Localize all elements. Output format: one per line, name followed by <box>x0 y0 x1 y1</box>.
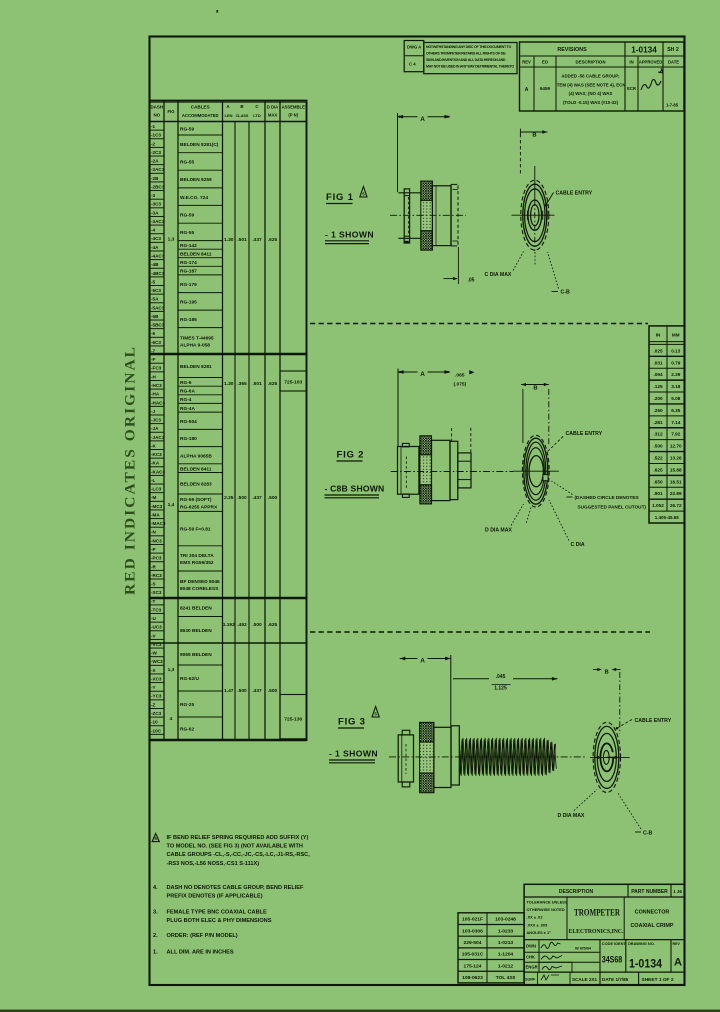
svg-text:CABLES: CABLES <box>191 105 210 110</box>
svg-text:2.: 2. <box>153 933 158 939</box>
svg-text:-3A: -3A <box>151 210 159 215</box>
svg-text:-2: -2 <box>151 141 156 146</box>
svg-text:-U: -U <box>151 616 157 621</box>
FIG 1 coupling nut knurl <box>421 181 433 200</box>
svg-text:EO: EO <box>542 60 549 65</box>
svg-text:1-0213: 1-0213 <box>498 940 514 946</box>
svg-text:-5AC3: -5AC3 <box>151 305 165 310</box>
FIG 2 connector side view <box>398 447 419 495</box>
svg-text:A: A <box>420 371 425 378</box>
svg-text:REV: REV <box>522 60 531 65</box>
svg-text:.901: .901 <box>653 491 663 496</box>
svg-text:-4: -4 <box>151 228 156 233</box>
svg-text:-1: -1 <box>151 124 156 129</box>
code ident cell <box>625 940 627 973</box>
svg-text:3.18: 3.18 <box>671 384 681 389</box>
svg-text:LTD: LTD <box>253 113 261 118</box>
svg-text:B: B <box>532 132 536 138</box>
svg-text:.500: .500 <box>268 495 278 501</box>
svg-text:-10C: -10C <box>151 728 162 733</box>
svg-text:4.: 4. <box>153 885 158 891</box>
svg-text:1,3: 1,3 <box>168 667 175 673</box>
svg-text:RG-6A: RG-6A <box>180 389 195 395</box>
svg-text:1-0212: 1-0212 <box>498 963 514 969</box>
svg-text:1.: 1. <box>153 950 158 956</box>
svg-text:ELECTRONICS,INC.: ELECTRONICS,INC. <box>569 928 624 935</box>
svg-text:103-0248: 103-0248 <box>495 917 516 923</box>
FIG 2 dimension A <box>397 369 399 448</box>
svg-text:.XX ± .02: .XX ± .02 <box>527 915 544 920</box>
scan dark strip at bottom edge <box>0 1010 720 1012</box>
svg-text:.125: .125 <box>653 384 663 389</box>
FIG 1 connector side view <box>398 192 421 194</box>
svg-text:-M: -M <box>151 495 157 500</box>
svg-text:C: C <box>255 104 259 109</box>
svg-text:(.075): (.075) <box>454 381 467 387</box>
svg-text:COAXIAL CRIMP: COAXIAL CRIMP <box>630 923 673 929</box>
svg-text:-T: -T <box>151 599 156 604</box>
FIG 1 small dim .05 <box>457 247 459 284</box>
FIG 2 flange <box>450 441 458 499</box>
FIG 3 dimension B <box>593 669 601 671</box>
cable table header <box>150 121 307 123</box>
svg-text:1-0134: 1-0134 <box>631 46 657 55</box>
svg-text:-JA: -JA <box>151 426 159 431</box>
svg-text:105-021F: 105-021F <box>462 917 483 923</box>
FIG 1 end view circles <box>521 180 549 250</box>
svg-text:-MC3: -MC3 <box>151 504 163 509</box>
svg-text:.094: .094 <box>653 372 663 377</box>
svg-text:.065: .065 <box>455 372 465 378</box>
svg-text:RG-142: RG-142 <box>180 243 197 249</box>
inch-mm conversion table <box>649 326 685 523</box>
svg-text:2.39: 2.39 <box>671 372 681 377</box>
FIG 1 dimension B <box>520 131 547 133</box>
svg-text:FEMALE TYPE BNC COAXIAL CABLE: FEMALE TYPE BNC COAXIAL CABLE <box>167 909 268 915</box>
svg-text:725-130: 725-130 <box>284 717 302 723</box>
FIG 2 keyway notch <box>543 475 548 481</box>
svg-text:W.E.CO. 724: W.E.CO. 724 <box>180 195 208 201</box>
svg-text:-XC3: -XC3 <box>151 676 162 681</box>
svg-text:DATE: DATE <box>668 60 679 65</box>
svg-text:15.88: 15.88 <box>670 467 682 472</box>
svg-text:DASH: DASH <box>151 105 163 110</box>
svg-text:REV: REV <box>673 942 681 946</box>
svg-text:BELDEN 8281: BELDEN 8281 <box>180 364 212 370</box>
svg-text:RG-180: RG-180 <box>180 436 197 442</box>
svg-text:IN: IN <box>656 333 661 338</box>
FIG 1 lower center dots <box>534 252 536 266</box>
svg-text:BELDEN 8411: BELDEN 8411 <box>180 252 212 258</box>
revisions table <box>520 42 685 111</box>
svg-text:-N: -N <box>151 530 157 535</box>
svg-text:MAX: MAX <box>268 113 278 118</box>
svg-text:PREFIX DENOTES (IF APPLICABLE): PREFIX DENOTES (IF APPLICABLE) <box>167 893 263 899</box>
svg-text:RG-25: RG-25 <box>180 702 194 708</box>
svg-text:-V: -V <box>151 633 157 638</box>
svg-text:A: A <box>420 116 425 123</box>
svg-text:-2BC3: -2BC3 <box>151 184 165 189</box>
svg-text:IN: IN <box>629 60 633 65</box>
svg-text:5.08: 5.08 <box>671 396 681 401</box>
svg-text:-10: -10 <box>151 720 158 725</box>
svg-text:A: A <box>525 87 529 93</box>
svg-text:ALL DIM. ARE IN INCHES: ALL DIM. ARE IN INCHES <box>167 950 234 956</box>
svg-text:.625: .625 <box>268 622 278 628</box>
FIG 1 cable entry label <box>547 193 554 205</box>
svg-text:.625: .625 <box>268 237 278 243</box>
svg-text:-KAC3: -KAC3 <box>151 469 165 474</box>
svg-text:4: 4 <box>170 716 173 722</box>
svg-text:-P: -P <box>151 547 156 552</box>
svg-text:ASSEMBLE: ASSEMBLE <box>282 105 305 110</box>
svg-text:1,4: 1,4 <box>168 502 175 508</box>
svg-text:CODE IDENT: CODE IDENT <box>602 941 627 946</box>
svg-text:REVISIONS: REVISIONS <box>557 47 587 53</box>
svg-text:-UC3: -UC3 <box>151 625 162 630</box>
svg-text:-RC3: -RC3 <box>151 573 162 578</box>
svg-text:SIGN AND INVENTION AND ALL DAT: SIGN AND INVENTION AND ALL DATA HEREON A… <box>426 58 506 62</box>
svg-text:RG-185: RG-185 <box>180 317 197 323</box>
FIG 3 end view crosshair <box>590 756 630 758</box>
scan speck top <box>217 10 219 13</box>
svg-text:SCALE 2X1: SCALE 2X1 <box>572 977 597 982</box>
FIG 3 inner C ring <box>600 743 613 771</box>
svg-text:RG-504: RG-504 <box>180 419 197 425</box>
svg-text:-R: -R <box>151 564 157 569</box>
svg-text:BELDEN 8281(C): BELDEN 8281(C) <box>180 142 219 148</box>
Trompeter logo <box>623 897 625 940</box>
svg-text:-W: -W <box>151 651 158 656</box>
svg-text:1.192: 1.192 <box>223 622 235 628</box>
svg-text:8241 BELDEN: 8241 BELDEN <box>180 605 212 611</box>
svg-text:DESCRIPTION: DESCRIPTION <box>559 889 594 895</box>
svg-text:12.70: 12.70 <box>670 444 682 449</box>
svg-text:1-0134: 1-0134 <box>629 959 663 971</box>
svg-text:B: B <box>605 670 609 676</box>
approval signature squiggle <box>641 79 661 90</box>
svg-text:1-1204: 1-1204 <box>498 952 514 958</box>
svg-text:-JC3: -JC3 <box>151 418 161 423</box>
FIG 3 end view circles <box>593 722 620 792</box>
svg-text:CABLE ENTRY: CABLE ENTRY <box>556 191 593 197</box>
svg-text:.522: .522 <box>653 456 663 461</box>
svg-text:-S: -S <box>151 582 156 587</box>
svg-text:-4C3: -4C3 <box>151 236 161 241</box>
FIG 3 connector side view <box>398 735 413 782</box>
svg-text:3.: 3. <box>153 909 158 915</box>
FIG 1 dimension A <box>397 113 399 192</box>
svg-text:.437: .437 <box>252 688 262 694</box>
svg-text:.XXX ± .005: .XXX ± .005 <box>527 922 549 927</box>
svg-text:2.25: 2.25 <box>224 495 234 501</box>
svg-text:FIG 2: FIG 2 <box>337 450 365 461</box>
svg-text:.500: .500 <box>237 495 247 501</box>
note 5 triangle <box>152 834 159 842</box>
svg-text:(4) WAS; (NO 4) WAS: (4) WAS; (NO 4) WAS <box>569 91 613 96</box>
svg-text:FIG 3: FIG 3 <box>338 717 366 728</box>
svg-text:1.47: 1.47 <box>224 688 234 694</box>
svg-text:-4B: -4B <box>151 262 159 267</box>
signature rows <box>524 939 684 941</box>
svg-text:105-031C: 105-031C <box>462 952 484 958</box>
svg-text:C DIA: C DIA <box>571 542 585 548</box>
svg-text:-VC3: -VC3 <box>151 642 162 647</box>
svg-text:PART NUMBER: PART NUMBER <box>631 889 668 895</box>
FIG 1 front end hidden lines <box>450 184 452 246</box>
svg-text:.625: .625 <box>653 467 663 472</box>
svg-text:-HC3: -HC3 <box>151 383 162 388</box>
svg-text:MAY NOT BE USED IN ANY WAY DET: MAY NOT BE USED IN ANY WAY DETRIMENTAL T… <box>426 64 514 68</box>
svg-text:16.51: 16.51 <box>670 479 682 484</box>
svg-text:-Y: -Y <box>151 685 156 690</box>
svg-text:DWN: DWN <box>526 944 536 949</box>
svg-text:FIG 1: FIG 1 <box>326 192 354 203</box>
svg-text:RG-174: RG-174 <box>180 260 197 266</box>
assembly cell 725-103 <box>280 371 307 391</box>
svg-text:TO MODEL NO. (SEE FIG 3) (NOT: TO MODEL NO. (SEE FIG 3) (NOT AVAILABLE … <box>167 844 303 850</box>
FIG 2 end view crosshair <box>513 470 559 472</box>
FIG 1 body <box>432 186 451 246</box>
svg-text:.500: .500 <box>252 622 262 628</box>
svg-text:RG-6255 APPRX: RG-6255 APPRX <box>180 504 218 510</box>
svg-text:8048 CORELESS: 8048 CORELESS <box>180 586 219 592</box>
svg-text:.500: .500 <box>237 688 247 694</box>
svg-text:CABLE GROUPS -CL,-S,-CC,-JC,-C: CABLE GROUPS -CL,-S,-CC,-JC,-CS,-LC,-J1-… <box>167 852 311 858</box>
svg-text:TOL 4S0: TOL 4S0 <box>496 975 516 981</box>
svg-text:-Z: -Z <box>151 702 156 707</box>
svg-text:CABLE ENTRY: CABLE ENTRY <box>566 431 603 437</box>
svg-text:DESCRIPTION: DESCRIPTION <box>575 60 605 65</box>
svg-text:.250: .250 <box>653 408 663 413</box>
svg-text:-6: -6 <box>151 331 156 336</box>
svg-text:LEN: LEN <box>225 113 233 118</box>
svg-text:APPROVED: APPROVED <box>639 60 663 65</box>
svg-text:C-B: C-B <box>561 290 570 296</box>
svg-text:.625: .625 <box>268 381 278 387</box>
FIG 1 end view crosshair <box>512 214 555 216</box>
dash number rows <box>150 129 165 131</box>
svg-text:-2A: -2A <box>151 159 159 164</box>
svg-text:RG-4A: RG-4A <box>180 406 195 412</box>
svg-text:RG-62: RG-62 <box>180 727 194 733</box>
svg-text:CABLE ENTRY: CABLE ENTRY <box>635 718 672 724</box>
svg-text:BELDEN 8283: BELDEN 8283 <box>180 481 212 487</box>
svg-text:NO: NO <box>153 113 160 118</box>
svg-text:SUGGESTED PANEL CUTOUT): SUGGESTED PANEL CUTOUT) <box>578 504 647 509</box>
svg-text:-5BC3: -5BC3 <box>151 323 165 328</box>
svg-text:1-0233: 1-0233 <box>498 928 514 934</box>
svg-text:RG-59 (SOFT): RG-59 (SOFT) <box>180 497 212 503</box>
svg-text:-4AC3: -4AC3 <box>151 254 165 259</box>
svg-text:-J: -J <box>151 409 156 414</box>
svg-text:-5B: -5B <box>151 314 159 319</box>
svg-text:-6C3: -6C3 <box>151 340 161 345</box>
svg-text:ADDED -56 CABLE GROUP;: ADDED -56 CABLE GROUP; <box>561 74 620 79</box>
svg-text:8630 BELDEN: 8630 BELDEN <box>180 628 212 634</box>
svg-text:-F: -F <box>151 357 156 362</box>
cable name cells <box>178 134 223 136</box>
svg-text:RG-187: RG-187 <box>180 269 197 275</box>
svg-text:(DASHED CIRCLE DENOTES: (DASHED CIRCLE DENOTES <box>575 495 639 500</box>
svg-text:26.72: 26.72 <box>670 503 682 508</box>
svg-text:B: B <box>240 104 243 109</box>
svg-text:BELDEN 8259: BELDEN 8259 <box>180 177 212 183</box>
svg-text:-ZC3: -ZC3 <box>151 711 162 716</box>
svg-text:.312: .312 <box>653 432 663 437</box>
svg-text:BF DENSED 8046: BF DENSED 8046 <box>180 579 220 585</box>
svg-text:.045: .045 <box>496 674 506 680</box>
svg-text:ACCOMMODATED: ACCOMMODATED <box>182 113 219 118</box>
svg-text:-WC3: -WC3 <box>151 659 163 664</box>
svg-text:-3AC3: -3AC3 <box>151 219 165 224</box>
svg-text:CHK: CHK <box>526 955 535 960</box>
svg-text:RG-62/U: RG-62/U <box>180 676 199 682</box>
FIG 2 centerline <box>391 471 513 473</box>
svg-text:6459: 6459 <box>540 86 551 91</box>
svg-text:ITEM (4) WAS (SEE NOTE 4), ECN: ITEM (4) WAS (SEE NOTE 4), ECN <box>555 82 625 87</box>
svg-text:RG-59: RG-59 <box>180 212 194 218</box>
FIG 2 lower center dots <box>526 508 531 525</box>
svg-text:-HAC3: -HAC3 <box>151 400 165 405</box>
svg-text:EMS RG59/352: EMS RG59/352 <box>180 560 214 566</box>
svg-text:TRI 304 DELTA: TRI 304 DELTA <box>180 553 214 559</box>
svg-text:-JAC3: -JAC3 <box>151 435 165 440</box>
svg-text:ECR: ECR <box>627 86 636 91</box>
svg-text:-MA: -MA <box>151 512 160 517</box>
svg-text:-5A: -5A <box>151 297 159 302</box>
svg-text:SH 2: SH 2 <box>667 47 679 53</box>
svg-text:0.13: 0.13 <box>671 348 681 353</box>
svg-text:-KA: -KA <box>151 461 160 466</box>
svg-text:0.79: 0.79 <box>671 360 681 365</box>
svg-text:CONNECTOR: CONNECTOR <box>635 910 670 916</box>
svg-text:W 6/5/84: W 6/5/84 <box>575 946 592 951</box>
FIG 2 body <box>432 440 451 500</box>
svg-text:-5: -5 <box>151 279 156 284</box>
svg-text:108-0623: 108-0623 <box>462 975 483 981</box>
svg-text:1,3: 1,3 <box>168 237 175 243</box>
cable table outer box <box>150 101 307 740</box>
svg-text:A: A <box>226 104 230 109</box>
drawing border frame <box>150 37 685 986</box>
svg-text:-LC3: -LC3 <box>151 487 162 492</box>
svg-text:OTHERS TROMPETER RETAINS ALL R: OTHERS TROMPETER RETAINS ALL RIGHTS OF D… <box>426 52 507 56</box>
svg-text:D DIA MAX: D DIA MAX <box>558 813 585 819</box>
svg-text:ORDER: (REF P/N MODEL): ORDER: (REF P/N MODEL) <box>167 933 238 939</box>
svg-text:1-7-85: 1-7-85 <box>666 103 679 108</box>
svg-text:-NC3: -NC3 <box>151 538 162 543</box>
svg-text:SURF: SURF <box>525 978 536 982</box>
svg-text:-HA: -HA <box>151 392 160 397</box>
svg-text:ALPHA 9-058: ALPHA 9-058 <box>180 343 210 349</box>
svg-text:-4BC3: -4BC3 <box>151 271 165 276</box>
proprietary legend box <box>424 43 517 74</box>
svg-text:A: A <box>674 957 682 969</box>
svg-text:RG-195: RG-195 <box>180 299 197 305</box>
FIG 3 spring length dimension <box>453 678 489 680</box>
svg-text:-TC3: -TC3 <box>151 607 162 612</box>
svg-text:1.052: 1.052 <box>652 503 664 508</box>
svg-text:TOLERANCE UNLESS: TOLERANCE UNLESS <box>527 900 568 905</box>
svg-text:RG-6: RG-6 <box>180 380 192 386</box>
svg-text:.500: .500 <box>653 444 663 449</box>
svg-text:-X: -X <box>151 668 157 673</box>
note triangle FIG 3 <box>372 707 379 718</box>
svg-text:A: A <box>420 658 425 665</box>
svg-text:-3: -3 <box>151 193 156 198</box>
svg-text:(TOLD -0.15) WAS (#10-32): (TOLD -0.15) WAS (#10-32) <box>563 100 619 105</box>
svg-text:IF BEND RELIEF SPRING REQUIRED: IF BEND RELIEF SPRING REQUIRED ADD SUFFI… <box>167 835 309 841</box>
svg-text:-2B: -2B <box>151 176 159 181</box>
FIG 3 flange <box>451 726 459 785</box>
svg-text:- 1 SHOWN: - 1 SHOWN <box>329 749 378 759</box>
svg-text:-1C3: -1C3 <box>151 133 161 138</box>
svg-text:RG-55: RG-55 <box>180 230 194 236</box>
svg-text:NOTWITHSTANDING ANY DISC OF TH: NOTWITHSTANDING ANY DISC OF THIS DOCUMEN… <box>426 45 512 49</box>
svg-text:RG-59 F=0.81: RG-59 F=0.81 <box>180 527 211 533</box>
svg-text:9065 BELDEN: 9065 BELDEN <box>180 652 212 658</box>
svg-text:1.125: 1.125 <box>494 685 507 691</box>
svg-text:6.35: 6.35 <box>671 408 681 413</box>
svg-text:.281: .281 <box>653 420 663 425</box>
svg-text:SHEET 1 OF 2: SHEET 1 OF 2 <box>642 977 674 983</box>
svg-text:-4A: -4A <box>151 245 159 250</box>
svg-text:34S68: 34S68 <box>602 955 623 965</box>
svg-text:.437: .437 <box>252 495 262 501</box>
svg-text:.501: .501 <box>252 381 262 387</box>
svg-text:725-103: 725-103 <box>284 380 302 386</box>
dashed separator line between FIG2 and FIG3 <box>310 631 650 633</box>
svg-text:-YC3: -YC3 <box>151 694 162 699</box>
svg-text:D DIA MAX: D DIA MAX <box>485 527 512 533</box>
tolerance block <box>566 897 568 940</box>
svg-text:TIMES T-44695: TIMES T-44695 <box>180 335 214 341</box>
svg-text:-5C3: -5C3 <box>151 288 161 293</box>
svg-text:-3C3: -3C3 <box>151 202 161 207</box>
svg-text:D DIA: D DIA <box>267 105 278 110</box>
svg-text:7.14: 7.14 <box>671 420 681 425</box>
svg-text:C 4: C 4 <box>409 62 416 67</box>
svg-text:DWG A: DWG A <box>407 45 421 50</box>
svg-text:BELDEN 8411: BELDEN 8411 <box>180 466 212 472</box>
svg-text:.650: .650 <box>653 479 663 484</box>
svg-text:DASH NO DENOTES CABLE GROUP, B: DASH NO DENOTES CABLE GROUP, BEND RELIEF <box>167 885 305 891</box>
svg-text:-MAC3: -MAC3 <box>151 521 166 526</box>
svg-text:-H: -H <box>151 374 157 379</box>
assembly cell 725-130 <box>280 695 307 739</box>
parts cross reference table <box>458 913 524 983</box>
svg-text:(P N): (P N) <box>288 113 298 118</box>
svg-text:-L: -L <box>151 478 156 483</box>
svg-text:-2C3: -2C3 <box>151 150 161 155</box>
FIG 2 hex jam nut <box>458 453 471 488</box>
svg-text:RG-55: RG-55 <box>180 160 194 166</box>
svg-text:C-B: C-B <box>643 830 652 836</box>
svg-text:DATE 1/7/85: DATE 1/7/85 <box>602 977 629 982</box>
svg-text:.200: .200 <box>653 396 663 401</box>
FIG 3 dimension A <box>450 655 452 727</box>
svg-text:PLUG BOTH ELEC & PHY DIMENSION: PLUG BOTH ELEC & PHY DIMENSIONS <box>167 918 272 924</box>
svg-text:175-124: 175-124 <box>464 963 482 969</box>
svg-text:- C8B SHOWN: - C8B SHOWN <box>325 484 385 494</box>
svg-text:7.92: 7.92 <box>671 432 681 437</box>
svg-text:1.30: 1.30 <box>224 237 234 243</box>
note triangle FIG 1 <box>360 187 367 198</box>
title block header row <box>524 896 684 898</box>
svg-text:22.89: 22.89 <box>670 491 682 496</box>
svg-text:1.30: 1.30 <box>224 381 234 387</box>
